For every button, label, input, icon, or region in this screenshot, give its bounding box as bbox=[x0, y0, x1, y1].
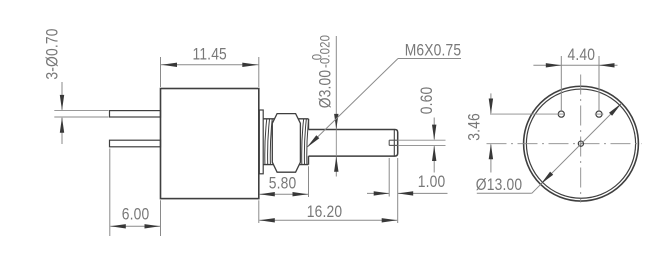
dimension 4.40 line and arrows bbox=[533, 64, 617, 66]
dimension 4.40 extension lines bbox=[560, 56, 562, 110]
dimension 11.45 extension lines bbox=[160, 57, 162, 87]
thread callout M6X0.75 leader bbox=[398, 58, 461, 60]
end view inner circle bbox=[526, 89, 635, 198]
pin hole tick right bbox=[595, 113, 604, 115]
dimension 11.45 line and arrows bbox=[161, 64, 259, 66]
svg-text:16.20: 16.20 bbox=[307, 203, 342, 221]
dimension 5.80 extension line bbox=[308, 166, 310, 197]
pin hole left bbox=[558, 111, 564, 117]
terminal pin 1 (upper) bbox=[110, 111, 161, 117]
svg-text:5.80: 5.80 bbox=[269, 174, 297, 192]
svg-text:Ø3.00: Ø3.00 bbox=[316, 70, 334, 109]
dimension 16.20 line and arrows bbox=[259, 219, 397, 221]
svg-text:4.40: 4.40 bbox=[567, 46, 595, 64]
hex nut M6 bbox=[272, 114, 300, 173]
dimension 3.46 arrows bbox=[490, 93, 492, 113]
thread lines left of nut bbox=[265, 119, 267, 164]
dimension Ø3.00 line and arrows bbox=[335, 36, 337, 129]
svg-text:0: 0 bbox=[310, 54, 325, 60]
end view outer circle bbox=[524, 86, 639, 201]
center hole bbox=[578, 141, 583, 146]
dimension 3.46 extension line bbox=[490, 113, 565, 115]
dimension 1.00 line and arrows bbox=[367, 192, 389, 194]
dimension 3-Ø0.70 arrows bbox=[61, 82, 63, 110]
svg-text:6.00: 6.00 bbox=[122, 205, 150, 223]
potentiometer body (side view) bbox=[161, 89, 259, 199]
svg-text:1.00: 1.00 bbox=[418, 173, 446, 191]
terminal pin 2 (lower) bbox=[110, 140, 161, 147]
dimension 3-Ø0.70 extension lines bbox=[54, 110, 108, 112]
shaft bbox=[309, 130, 398, 157]
shaft end chamfer line bbox=[393, 130, 395, 156]
dimension 16.20 extension lines bbox=[258, 200, 260, 223]
pin hole right bbox=[596, 111, 602, 117]
svg-text:3-Ø0.70: 3-Ø0.70 bbox=[43, 28, 61, 79]
svg-text:3.46: 3.46 bbox=[465, 113, 483, 141]
threaded bushing outline bbox=[263, 118, 308, 120]
dimension Ø13.00 line and arrows bbox=[477, 192, 532, 194]
svg-text:Ø13.00: Ø13.00 bbox=[476, 176, 522, 194]
horizontal centerline bbox=[487, 143, 643, 145]
dimension 6.00 line and arrows bbox=[110, 225, 160, 227]
dimension 6.00 extension lines bbox=[109, 149, 111, 237]
dimension 0.60 arrows bbox=[433, 118, 435, 140]
svg-text:M6X0.75: M6X0.75 bbox=[405, 41, 462, 59]
thread lines right of nut bbox=[302, 119, 304, 164]
mounting flange bbox=[259, 110, 263, 174]
svg-text:11.45: 11.45 bbox=[192, 45, 226, 63]
slot width extension lines bbox=[398, 139, 446, 141]
svg-text:0.60: 0.60 bbox=[418, 87, 436, 115]
svg-text:-0.020: -0.020 bbox=[318, 35, 333, 68]
vertical centerline bbox=[580, 75, 582, 203]
shaft slot bbox=[389, 139, 398, 141]
dimension 5.80 line and arrows bbox=[259, 193, 308, 195]
dimension 1.00 extension line bbox=[388, 158, 390, 197]
